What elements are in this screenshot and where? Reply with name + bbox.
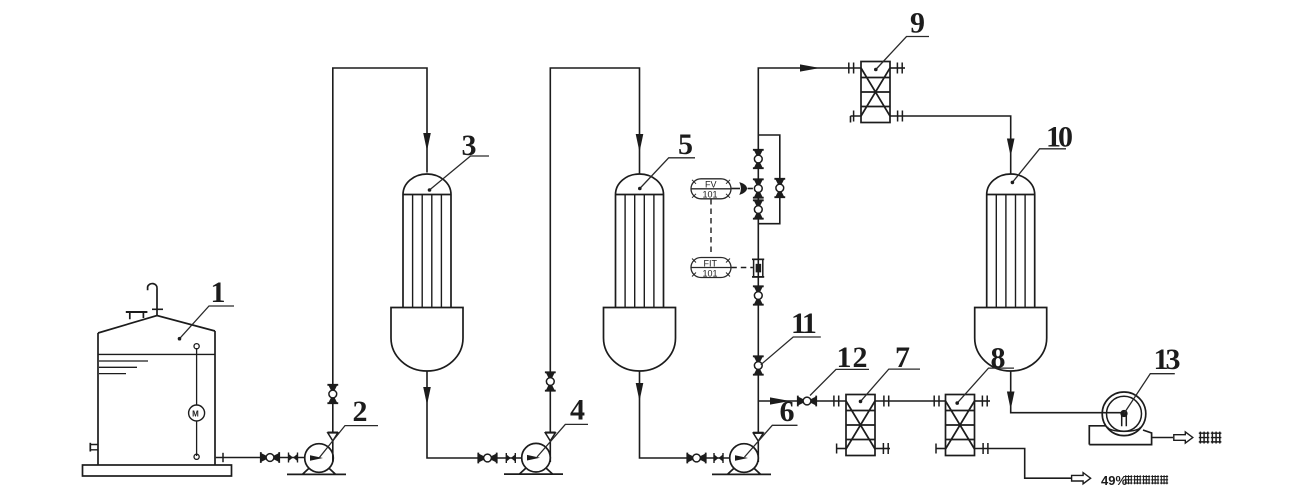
svg-text:1: 1 [211,276,226,309]
svg-text:FIT: FIT [704,258,718,268]
svg-text:13: 13 [1154,343,1180,376]
svg-text:101: 101 [703,190,718,200]
svg-text:3: 3 [462,129,477,162]
svg-text:5: 5 [678,128,693,161]
svg-text:101: 101 [703,268,718,278]
svg-text:10: 10 [1046,121,1072,154]
svg-text:FV: FV [705,180,717,190]
svg-text:8: 8 [991,342,1006,375]
svg-text:49%: 49% [1101,473,1127,488]
svg-text:7: 7 [895,341,910,374]
svg-text:2: 2 [353,395,368,428]
svg-text:6: 6 [780,395,795,428]
svg-text:9: 9 [910,7,925,40]
svg-text:11: 11 [791,307,816,340]
svg-text:12: 12 [837,341,869,374]
svg-text:4: 4 [570,394,585,427]
svg-text:M: M [192,409,199,418]
